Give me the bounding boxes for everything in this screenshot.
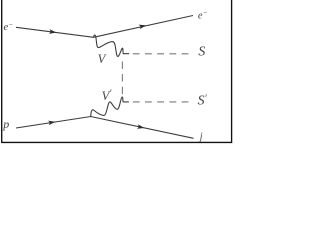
svg-text:S: S	[198, 44, 205, 59]
svg-text:S′: S′	[198, 93, 208, 108]
svg-text:j: j	[198, 131, 203, 142]
svg-text:e−: e−	[198, 8, 208, 22]
svg-text:V′: V′	[102, 88, 113, 102]
svg-text:p: p	[2, 117, 9, 131]
svg-text:V: V	[98, 52, 107, 66]
svg-text:e−: e−	[4, 20, 14, 33]
